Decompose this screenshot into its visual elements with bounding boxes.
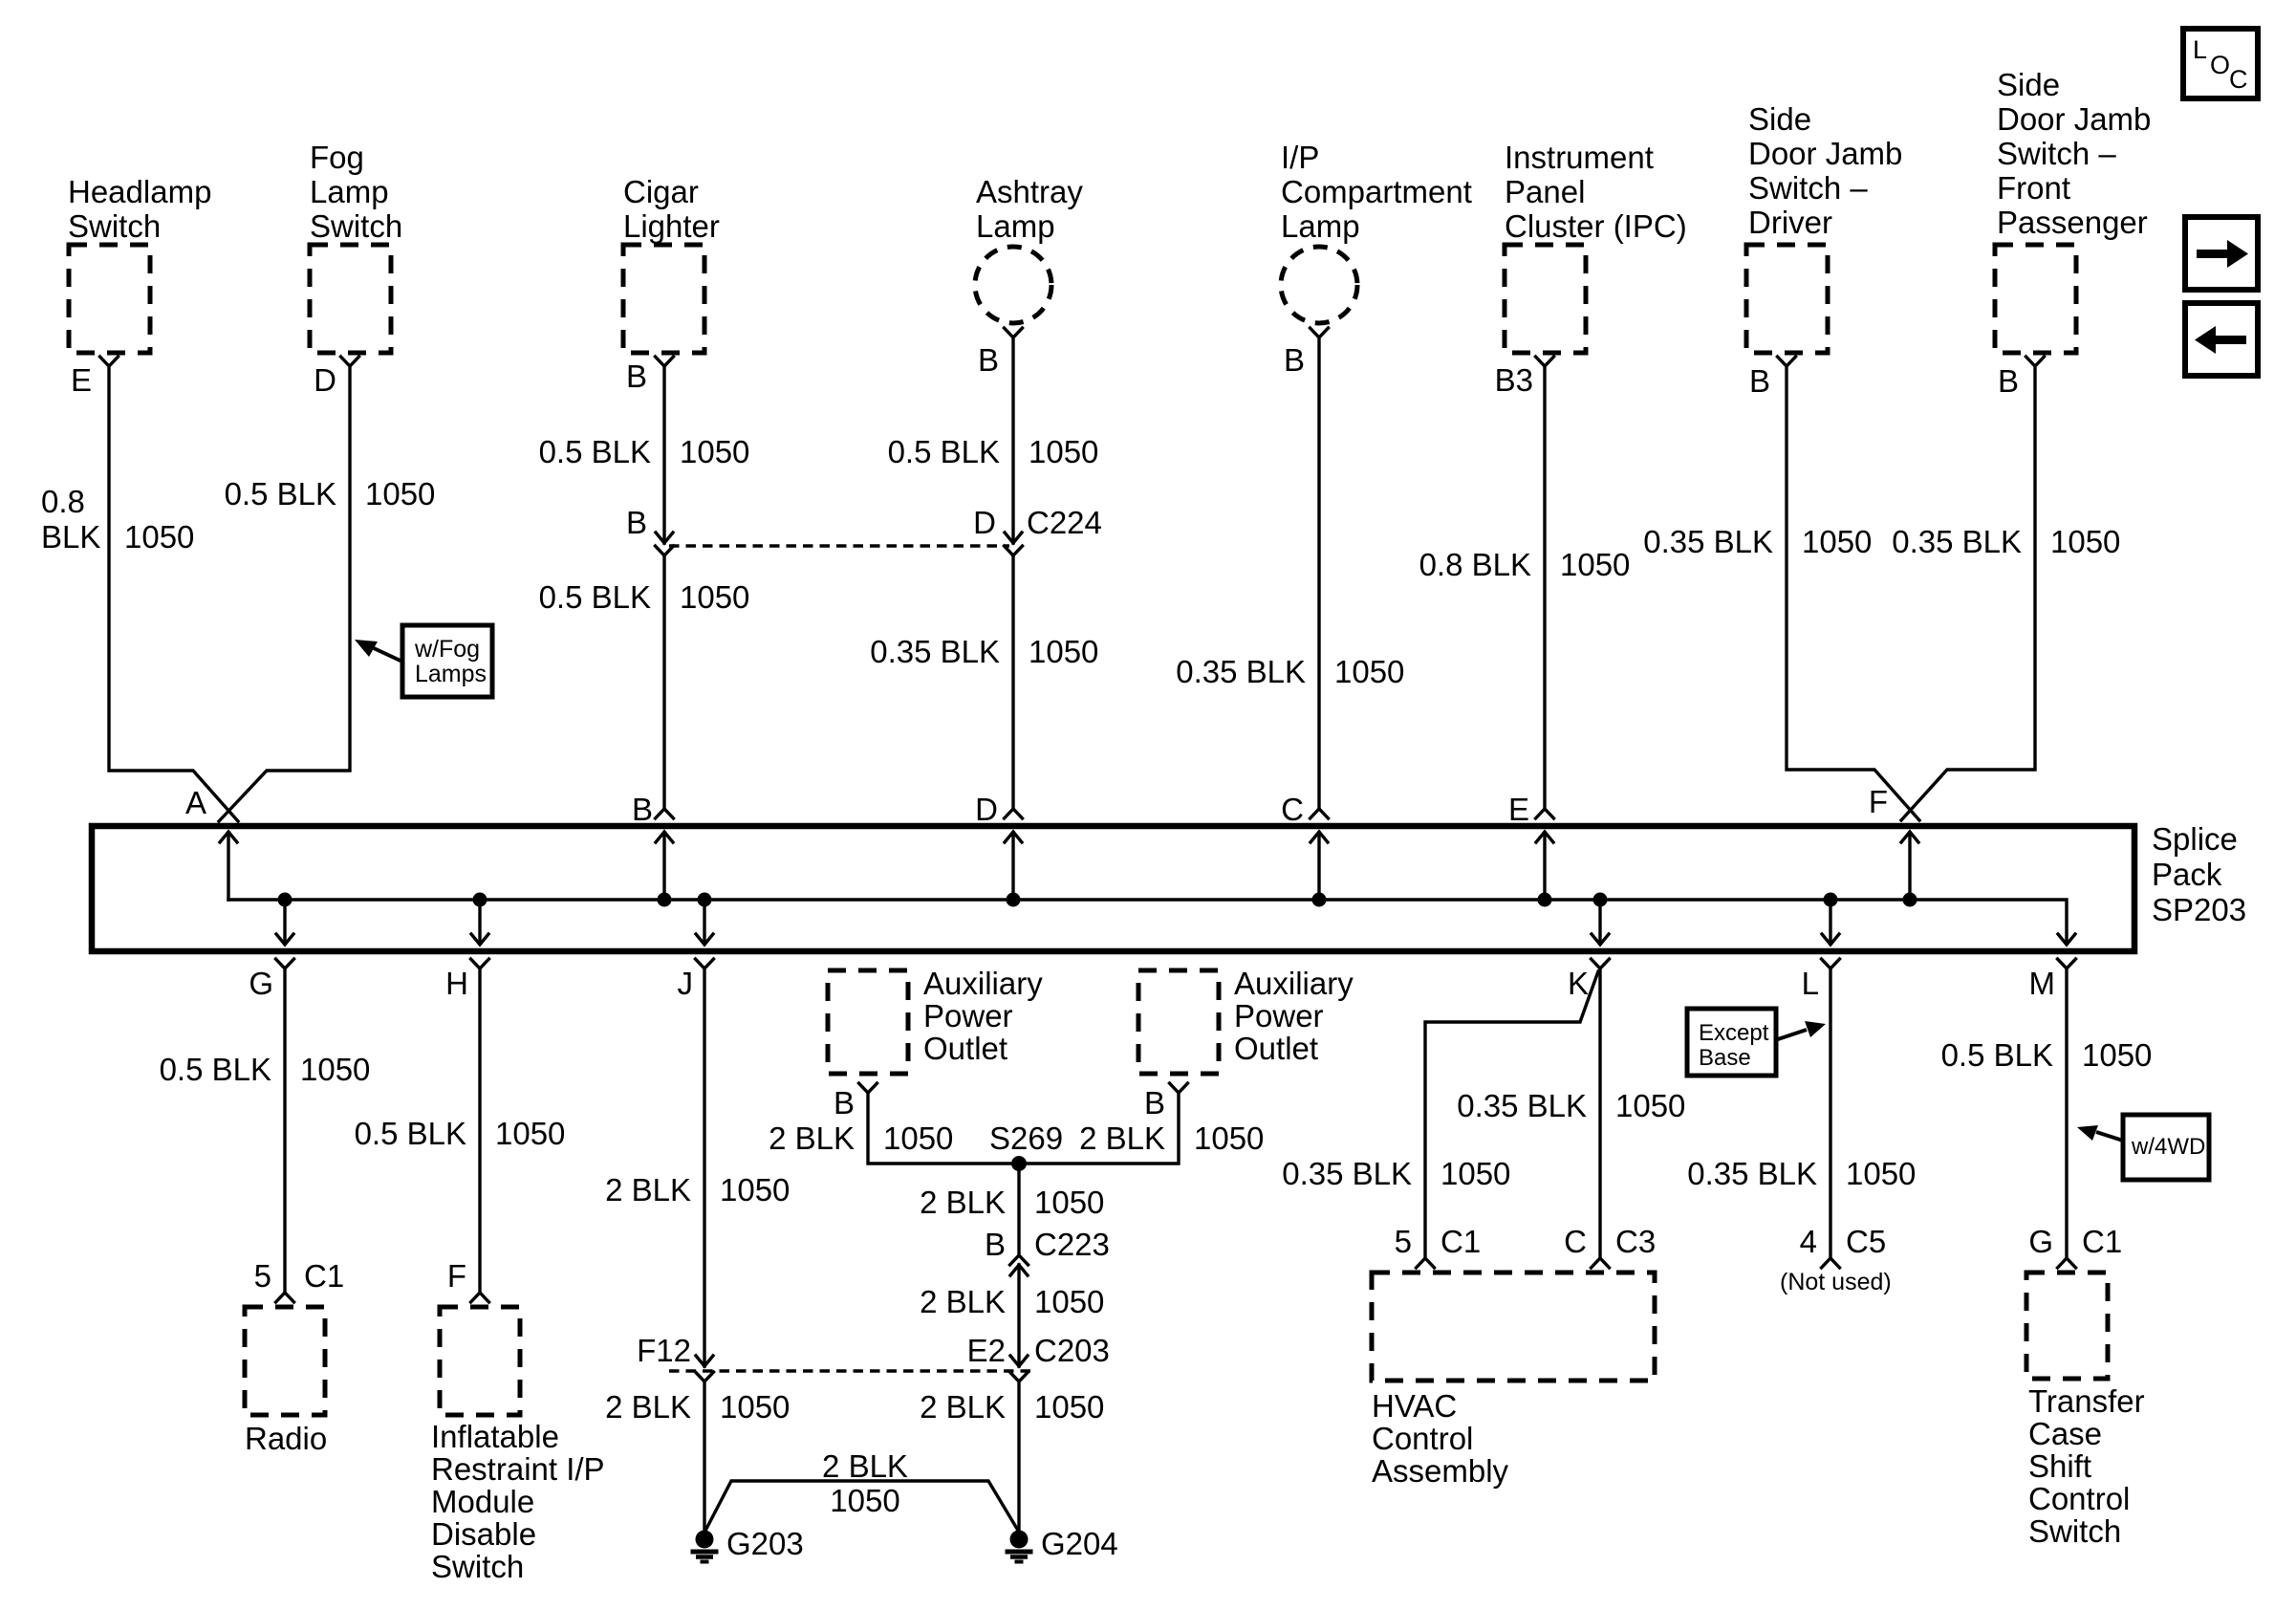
wire label 2 BLK 1050 (J wire lower): [605, 1389, 790, 1425]
annotation w/Fog Lamps box with arrow: [355, 625, 492, 697]
wire label 0.5 BLK 1050 (cigar upper): [539, 434, 750, 469]
component Fog Lamp Switch (dashed box): [310, 245, 391, 353]
svg-text:2 BLK: 2 BLK: [822, 1448, 908, 1484]
svg-text:4: 4: [1800, 1224, 1817, 1259]
wire 0.8 BLK 1050 from Headlamp Switch E to splice A: [109, 366, 238, 821]
svg-text:D: D: [975, 792, 998, 827]
svg-text:2 BLK: 2 BLK: [920, 1185, 1006, 1220]
svg-text:Lamp: Lamp: [310, 174, 389, 209]
svg-text:Compartment: Compartment: [1281, 174, 1472, 209]
inline connector C223 chevron: [1010, 1255, 1029, 1265]
wire 0.8 BLK 1050 from IPC B3 to splice E: [1543, 366, 1546, 808]
wire 0.5 BLK 1050 from splice M to Transfer Case Shift Control Switch: [2065, 968, 2068, 1258]
svg-text:2 BLK: 2 BLK: [920, 1389, 1006, 1425]
wire 0.5 BLK 1050 from C224 to splice B: [662, 555, 665, 808]
svg-text:C223: C223: [1034, 1227, 1110, 1262]
wire label 2 BLK 1050 (aux outlet 2): [1079, 1120, 1264, 1156]
svg-text:Panel: Panel: [1505, 174, 1585, 209]
svg-text:1050: 1050: [883, 1120, 953, 1156]
svg-text:Assembly: Assembly: [1372, 1453, 1509, 1489]
splice internal up arrow at terminal D: [1011, 833, 1014, 900]
svg-text:S269: S269: [989, 1120, 1063, 1156]
svg-text:0.5 BLK: 0.5 BLK: [160, 1052, 271, 1087]
svg-text:1050: 1050: [1194, 1120, 1264, 1156]
svg-text:Restraint I/P: Restraint I/P: [431, 1451, 605, 1487]
svg-text:C: C: [1281, 792, 1304, 827]
wire 0.35 BLK 1050 from C224 to splice D: [1011, 555, 1014, 808]
wire label 0.5 BLK 1050 (cigar lower): [539, 579, 750, 615]
svg-text:1050: 1050: [1034, 1389, 1104, 1425]
junction dot on bus at terminal E: [1538, 893, 1552, 907]
svg-text:F: F: [1869, 784, 1888, 819]
svg-text:Headlamp: Headlamp: [68, 174, 211, 209]
wire label 2 BLK 1050 (J wire upper): [605, 1172, 790, 1207]
wire label 0.5 BLK 1050 (G wire): [160, 1052, 371, 1087]
wire label 0.35 BLK 1050 (L wire): [1687, 1156, 1916, 1191]
svg-text:0.5 BLK: 0.5 BLK: [539, 579, 651, 615]
svg-text:0.5 BLK: 0.5 BLK: [1941, 1037, 2053, 1073]
svg-text:Disable: Disable: [431, 1516, 536, 1552]
legend arrow-right box: [2185, 217, 2258, 290]
wire 0.5 BLK 1050 from splice G to Radio: [283, 968, 286, 1293]
svg-text:Control: Control: [1372, 1421, 1473, 1456]
component Cigar Lighter label: [623, 174, 720, 244]
wire 0.35 BLK 1050 from splice L to connector C5 (not used): [1829, 968, 1831, 1258]
svg-text:Side: Side: [1997, 67, 2060, 102]
splice internal up arrow at terminal C: [1317, 833, 1320, 900]
svg-text:0.5 BLK: 0.5 BLK: [539, 434, 651, 469]
svg-text:C3: C3: [1615, 1224, 1656, 1259]
svg-text:Passenger: Passenger: [1997, 205, 2148, 240]
splice internal up arrow at terminal A: [227, 833, 229, 900]
svg-text:Switch: Switch: [310, 208, 402, 244]
svg-text:w/Fog: w/Fog: [414, 636, 480, 663]
svg-text:Module: Module: [431, 1484, 534, 1519]
svg-text:2 BLK: 2 BLK: [1079, 1120, 1165, 1156]
pin C / connector C3 labels (HVAC): [1564, 1224, 1656, 1259]
svg-text:E2: E2: [967, 1333, 1006, 1368]
svg-text:D: D: [973, 505, 996, 540]
svg-text:0.35 BLK: 0.35 BLK: [870, 634, 1000, 669]
svg-text:B: B: [626, 505, 647, 540]
component HVAC Control Assembly label: [1372, 1388, 1509, 1489]
svg-text:F: F: [447, 1258, 466, 1294]
connector at splice SP203 terminal D: [1005, 809, 1023, 818]
svg-text:Outlet: Outlet: [1234, 1031, 1318, 1066]
component Auxiliary Power Outlet 2 label: [1234, 966, 1354, 1066]
legend arrow-left box: [2185, 303, 2258, 376]
junction dot on bus at terminal D: [1007, 893, 1021, 907]
svg-text:Instrument: Instrument: [1505, 140, 1654, 175]
splice internal down arrow at terminal G: [283, 900, 286, 944]
wire 0.5 BLK 1050 from Ashtray Lamp B to connector C224: [1011, 337, 1014, 543]
component Side Door Jamb Switch Front Passenger (dashed box): [1995, 245, 2076, 353]
svg-text:Switch –: Switch –: [1997, 136, 2116, 171]
connector at splice SP203 terminal H (bottom): [471, 959, 489, 968]
wire 0.35 BLK 1050 from splice K to HVAC C3 pin C: [1598, 968, 1601, 1258]
svg-text:1050: 1050: [720, 1172, 790, 1207]
pin D / connector C224 labels (ashtray side): [973, 505, 1102, 540]
svg-text:1050: 1050: [365, 476, 435, 511]
wire label 0.8 BLK 1050 (headlamp wire): [41, 484, 194, 555]
junction dot on bus at terminal J: [698, 893, 712, 907]
svg-text:Switch: Switch: [431, 1549, 524, 1584]
component HVAC Control Assembly (dashed box): [1372, 1273, 1655, 1381]
connector C5 pin 4 (not used): [1822, 1258, 1840, 1268]
wire label 0.8 BLK 1050 (IPC wire): [1419, 547, 1631, 582]
ground G204: [1006, 1526, 1118, 1562]
svg-text:Lamp: Lamp: [976, 208, 1055, 244]
svg-text:C1: C1: [2082, 1224, 2122, 1259]
connector at splice SP203 terminal M (bottom): [2058, 959, 2076, 968]
wire label 2 BLK 1050 (S269 to C223): [920, 1185, 1104, 1220]
component Instrument Panel Cluster IPC (dashed box): [1505, 245, 1586, 353]
svg-text:0.5 BLK: 0.5 BLK: [888, 434, 1000, 469]
svg-text:Side: Side: [1748, 101, 1811, 137]
svg-text:1050: 1050: [300, 1052, 370, 1087]
component Instrument Panel Cluster (IPC) label: [1505, 140, 1687, 244]
svg-text:Cluster (IPC): Cluster (IPC): [1505, 208, 1687, 244]
splice internal up arrow at terminal B: [662, 833, 665, 900]
component Side Door Jamb Switch Driver (dashed box): [1746, 245, 1828, 353]
connector at splice SP203 terminal K (bottom): [1592, 959, 1610, 968]
wire 0.35 BLK 1050 from Passenger door jamb B to splice F: [1901, 366, 2035, 820]
wire label 2 BLK 1050 (ground link): [822, 1448, 908, 1518]
pin G / connector C1 labels (Transfer case): [2028, 1224, 2122, 1259]
svg-text:SP203: SP203: [2152, 892, 2246, 927]
svg-text:0.35 BLK: 0.35 BLK: [1892, 524, 2022, 559]
splice pack SP203 internal bus wire: [228, 900, 2067, 944]
svg-text:C203: C203: [1034, 1333, 1110, 1368]
svg-text:2 BLK: 2 BLK: [769, 1120, 855, 1156]
svg-text:Pack: Pack: [2152, 857, 2222, 892]
component Headlamp Switch label: [68, 174, 211, 244]
junction dot on bus at terminal H: [473, 893, 487, 907]
wire label 0.5 BLK 1050 (H wire): [355, 1116, 566, 1151]
connector at Inflatable Restraint switch pin F: [471, 1293, 489, 1302]
svg-text:C224: C224: [1027, 505, 1102, 540]
svg-text:Shift: Shift: [2028, 1448, 2091, 1484]
wire 0.35 BLK 1050 from Driver door jamb B to splice F: [1787, 366, 1919, 820]
connector at splice SP203 terminal C: [1310, 809, 1329, 818]
svg-text:1050: 1050: [680, 579, 749, 615]
wire 2 BLK 1050 ground link between G203 and G204: [706, 1481, 1017, 1529]
wire label 0.35 BLK 1050 (ashtray lower): [870, 634, 1098, 669]
splice pack SP203 outer box: [92, 826, 2134, 951]
svg-text:C1: C1: [304, 1258, 344, 1294]
connector at HVAC pin 5 C1: [1417, 1258, 1435, 1268]
svg-text:1050: 1050: [720, 1389, 790, 1425]
svg-text:L: L: [1802, 966, 1819, 1001]
connector at Side Door Jamb Switch Driver pin B: [1778, 357, 1796, 366]
svg-text:1050: 1050: [1034, 1185, 1104, 1220]
svg-text:Door Jamb: Door Jamb: [1748, 136, 1902, 171]
connector at Side Door Jamb Switch Front Passenger pin B: [2026, 357, 2045, 366]
wire 0.35 BLK 1050 branch from splice K to HVAC C1 pin 5: [1425, 971, 1598, 1258]
svg-text:0.35 BLK: 0.35 BLK: [1282, 1156, 1412, 1191]
wire 0.5 BLK 1050 from Fog Lamp Switch D to splice A: [219, 366, 350, 821]
wire label 0.35 BLK 1050 (driver door jamb wire): [1643, 524, 1872, 559]
svg-text:C: C: [2229, 65, 2248, 94]
svg-text:1050: 1050: [1440, 1156, 1510, 1191]
svg-text:Power: Power: [923, 998, 1013, 1033]
svg-text:0.35 BLK: 0.35 BLK: [1687, 1156, 1817, 1191]
svg-text:1050: 1050: [680, 434, 749, 469]
splice S269 junction dot: [1011, 1156, 1027, 1171]
svg-text:Case: Case: [2028, 1416, 2102, 1451]
wire label 0.35 BLK 1050 (K wire right branch): [1457, 1088, 1685, 1123]
svg-text:5: 5: [1395, 1224, 1412, 1259]
svg-text:0.35 BLK: 0.35 BLK: [1643, 524, 1773, 559]
svg-text:B: B: [834, 1085, 855, 1120]
svg-text:1050: 1050: [2082, 1037, 2152, 1073]
connector chevron below C203 (E2 side): [1010, 1372, 1029, 1382]
svg-text:2 BLK: 2 BLK: [605, 1389, 691, 1425]
junction dot on bus at terminal B: [658, 893, 672, 907]
connector at IPC pin B3: [1536, 357, 1554, 366]
wire label 2 BLK 1050 (aux outlet 1): [769, 1120, 953, 1156]
connector chevron below F12 (J side): [696, 1372, 714, 1382]
svg-text:1050: 1050: [124, 519, 194, 555]
component Inflatable Restraint I/P Module Disable Switch label: [431, 1419, 605, 1584]
splice internal up arrow at terminal F: [1908, 833, 1911, 900]
wire label 0.35 BLK 1050 (I/P compartment lamp): [1176, 654, 1404, 689]
component Auxiliary Power Outlet 1 label: [923, 966, 1043, 1066]
wire 0.35 BLK 1050 from I/P Compartment Lamp B to splice C: [1317, 337, 1320, 808]
connector at HVAC pin C C3: [1592, 1258, 1610, 1268]
svg-text:Splice: Splice: [2152, 821, 2238, 857]
svg-text:2 BLK: 2 BLK: [605, 1172, 691, 1207]
svg-text:B: B: [626, 359, 647, 394]
svg-text:0.8 BLK: 0.8 BLK: [1419, 547, 1531, 582]
svg-text:Transfer: Transfer: [2028, 1383, 2145, 1419]
annotation Except Base box with arrow: [1687, 1009, 1826, 1076]
svg-text:1050: 1050: [495, 1116, 565, 1151]
svg-text:Control: Control: [2028, 1481, 2130, 1516]
svg-text:B: B: [1144, 1085, 1165, 1120]
connector at splice SP203 terminal E: [1536, 809, 1554, 818]
svg-text:Radio: Radio: [245, 1421, 327, 1456]
svg-text:Driver: Driver: [1748, 205, 1832, 240]
component Auxiliary Power Outlet 2 (dashed box): [1138, 970, 1219, 1074]
wire label 0.5 BLK 1050 (M wire): [1941, 1037, 2153, 1073]
svg-text:1050: 1050: [1034, 1284, 1104, 1319]
svg-text:F12: F12: [637, 1333, 691, 1368]
svg-text:1050: 1050: [830, 1483, 899, 1518]
svg-text:Inflatable: Inflatable: [431, 1419, 559, 1454]
wire 2 BLK 1050 from F12 to ground G203: [703, 1382, 705, 1531]
svg-text:B: B: [1284, 342, 1305, 378]
svg-text:2 BLK: 2 BLK: [920, 1284, 1006, 1319]
component Ashtray Lamp (dashed circle): [975, 247, 1051, 323]
wire 2 BLK 1050 from C203 to ground G204: [1017, 1382, 1020, 1531]
connector at splice SP203 terminal B: [656, 809, 674, 818]
svg-text:Switch –: Switch –: [1748, 170, 1868, 206]
svg-text:1050: 1050: [1029, 434, 1098, 469]
svg-text:G: G: [2028, 1224, 2053, 1259]
junction dot on bus at terminal L: [1824, 893, 1838, 907]
connector at Ashtray Lamp pin B: [1005, 328, 1023, 337]
connector at Headlamp Switch pin E: [100, 357, 119, 366]
svg-text:B: B: [632, 792, 653, 827]
svg-text:E: E: [1508, 792, 1529, 827]
connector chevron below C224 (cigar side): [656, 546, 674, 555]
svg-text:J: J: [678, 966, 694, 1001]
svg-text:1050: 1050: [1846, 1156, 1916, 1191]
wire label 0.35 BLK 1050 (passenger door jamb wire): [1892, 524, 2120, 559]
svg-text:1050: 1050: [2050, 524, 2120, 559]
svg-text:B: B: [985, 1227, 1006, 1262]
component Transfer Case Shift Control Switch label: [2028, 1383, 2145, 1549]
svg-text:D: D: [314, 362, 336, 398]
connector C223 lower wire with up arrow: [1017, 1265, 1020, 1366]
wire label 2 BLK 1050 (G204 wire): [920, 1389, 1104, 1425]
connector at splice SP203 terminal G (bottom): [276, 959, 294, 968]
svg-text:5: 5: [254, 1258, 271, 1294]
svg-text:Base: Base: [1699, 1045, 1751, 1071]
component Side Door Jamb Switch - Front Passenger label: [1997, 67, 2151, 240]
wire 0.5 BLK 1050 from Cigar Lighter B to connector C224: [662, 366, 665, 543]
svg-text:BLK: BLK: [41, 519, 100, 555]
component Transfer Case Shift Control Switch (dashed box): [2026, 1273, 2108, 1379]
svg-text:C5: C5: [1846, 1224, 1886, 1259]
svg-text:B3: B3: [1495, 362, 1533, 398]
component Headlamp Switch (dashed box): [69, 245, 150, 353]
svg-text:C: C: [1564, 1224, 1587, 1259]
legend LOC box (top right): [2183, 29, 2258, 98]
junction dot on bus at terminal F: [1903, 893, 1917, 907]
svg-text:B: B: [978, 342, 999, 378]
svg-text:G203: G203: [726, 1526, 804, 1561]
svg-text:Outlet: Outlet: [923, 1031, 1007, 1066]
svg-text:0.8: 0.8: [41, 484, 85, 519]
connector at Auxiliary Power Outlet 1 pin B: [859, 1083, 877, 1093]
svg-text:L: L: [2193, 35, 2207, 64]
svg-text:C1: C1: [1440, 1224, 1481, 1259]
junction dot on bus at terminal K: [1593, 893, 1608, 907]
svg-text:E: E: [71, 362, 92, 398]
wire 2 BLK 1050 from splice J to connector F12: [703, 968, 705, 1366]
svg-text:O: O: [2210, 51, 2230, 79]
connector at Radio pin 5 C1: [276, 1293, 294, 1302]
svg-text:I/P: I/P: [1281, 140, 1319, 175]
splice internal down arrow at terminal H: [478, 900, 481, 944]
component Auxiliary Power Outlet 1 (dashed box): [828, 970, 908, 1074]
component I/P Compartment Lamp (dashed circle): [1281, 247, 1357, 323]
connector at splice SP203 terminal L (bottom): [1822, 959, 1840, 968]
svg-text:M: M: [2029, 966, 2056, 1001]
svg-text:Cigar: Cigar: [623, 174, 699, 209]
connector at Transfer Case switch pin G C1: [2058, 1258, 2076, 1268]
inline connector C203/F12 (dashed line): [669, 1369, 1032, 1372]
splice pack SP203 name label: [2152, 821, 2246, 927]
svg-text:Except: Except: [1699, 1020, 1769, 1046]
svg-text:Auxiliary: Auxiliary: [1234, 966, 1354, 1001]
junction dot on bus at terminal G: [278, 893, 292, 907]
junction dot on bus at terminal C: [1312, 893, 1327, 907]
svg-text:1050: 1050: [1029, 634, 1098, 669]
component Radio (dashed box): [245, 1307, 325, 1415]
splice internal up arrow at terminal E: [1543, 833, 1546, 900]
component Ashtray Lamp label: [976, 174, 1083, 244]
svg-text:Door Jamb: Door Jamb: [1997, 101, 2151, 137]
component Fog Lamp Switch label: [310, 140, 402, 244]
wire 2 BLK 1050 from S269 to connector C223: [1017, 1171, 1020, 1254]
connector at I/P Compartment Lamp pin B: [1310, 328, 1329, 337]
pin E2 / connector C203 labels: [967, 1333, 1110, 1368]
svg-text:1050: 1050: [1334, 654, 1404, 689]
annotation w/4WD box with arrow: [2077, 1115, 2209, 1180]
pin 5 / connector C1 labels (Radio): [254, 1258, 345, 1294]
wire 2 BLK 1050 joining aux outlets at splice S269: [868, 1093, 1179, 1164]
ground G203: [691, 1526, 804, 1562]
svg-text:Power: Power: [1234, 998, 1324, 1033]
connector at Auxiliary Power Outlet 2 pin B: [1170, 1083, 1188, 1093]
pin B / connector C223 labels: [985, 1227, 1110, 1262]
svg-text:Auxiliary: Auxiliary: [923, 966, 1043, 1001]
svg-text:Ashtray: Ashtray: [976, 174, 1083, 209]
svg-text:G204: G204: [1041, 1526, 1118, 1561]
component Inflatable Restraint I/P Module Disable Switch (dashed box): [440, 1307, 520, 1415]
splice internal down arrow at terminal L: [1829, 900, 1831, 944]
svg-text:Switch: Switch: [68, 208, 161, 244]
svg-text:1050: 1050: [1802, 524, 1872, 559]
component Cigar Lighter (dashed box): [623, 245, 704, 353]
wire label 0.35 BLK 1050 (K wire left branch): [1282, 1156, 1510, 1191]
wire 0.5 BLK 1050 from splice H to Inflatable Restraint disable switch: [478, 968, 481, 1293]
pin 5 / connector C1 labels (HVAC): [1395, 1224, 1482, 1259]
connector at Fog Lamp Switch pin D: [341, 357, 359, 366]
svg-text:0.5 BLK: 0.5 BLK: [355, 1116, 466, 1151]
inline connector C224 (dashed line): [669, 544, 1009, 547]
wire label 0.5 BLK 1050 (ashtray upper): [888, 434, 1099, 469]
connector at Cigar Lighter pin B: [656, 357, 674, 366]
pin 4 / connector C5 labels: [1800, 1224, 1887, 1259]
svg-text:Lighter: Lighter: [623, 208, 720, 244]
svg-text:G: G: [249, 966, 273, 1001]
component I/P Compartment Lamp label: [1281, 140, 1472, 244]
connector chevron below C224 (ashtray side): [1005, 546, 1023, 555]
svg-text:HVAC: HVAC: [1372, 1388, 1457, 1424]
svg-text:(Not used): (Not used): [1780, 1269, 1892, 1295]
splice internal down arrow at terminal J: [703, 900, 705, 944]
connector at splice SP203 terminal J (bottom): [696, 959, 714, 968]
splice internal down arrow at terminal K: [1598, 900, 1601, 944]
svg-text:H: H: [445, 966, 468, 1001]
svg-text:K: K: [1568, 966, 1589, 1001]
svg-text:Fog: Fog: [310, 140, 364, 175]
wire label 2 BLK 1050 (C223 to C203): [920, 1284, 1104, 1319]
svg-text:B: B: [1749, 363, 1770, 399]
svg-text:A: A: [185, 785, 206, 820]
svg-text:0.5 BLK: 0.5 BLK: [225, 476, 336, 511]
svg-text:Lamp: Lamp: [1281, 208, 1360, 244]
svg-text:w/4WD: w/4WD: [2131, 1134, 2205, 1160]
svg-text:0.35 BLK: 0.35 BLK: [1457, 1088, 1587, 1123]
wire label 0.5 BLK 1050 (fog lamp wire): [225, 476, 436, 511]
svg-text:Lamps: Lamps: [415, 661, 487, 687]
svg-text:Switch: Switch: [2028, 1513, 2121, 1549]
svg-text:1050: 1050: [1560, 547, 1630, 582]
svg-text:B: B: [1998, 363, 2019, 399]
svg-text:Front: Front: [1997, 170, 2070, 206]
svg-text:0.35 BLK: 0.35 BLK: [1176, 654, 1306, 689]
component Side Door Jamb Switch - Driver label: [1748, 101, 1902, 240]
svg-text:1050: 1050: [1615, 1088, 1685, 1123]
